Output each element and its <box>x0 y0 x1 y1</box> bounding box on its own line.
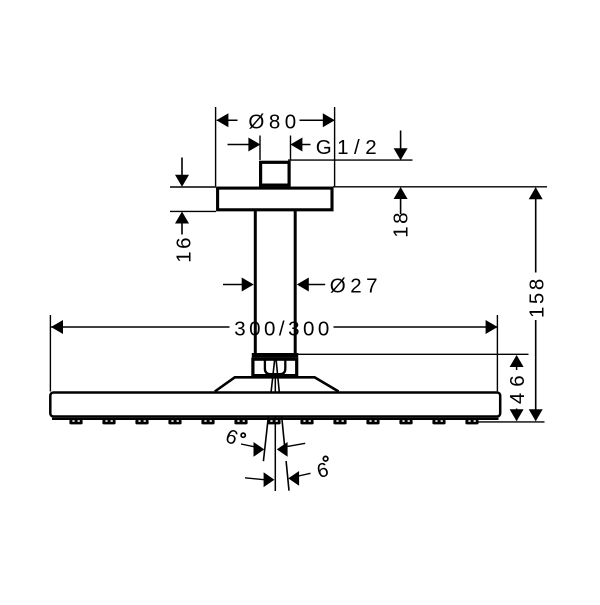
extension line G1/2 right <box>290 136 292 161</box>
dim 18 upper arrow (down) <box>394 148 408 160</box>
svg-text:G1/2: G1/2 <box>316 136 382 159</box>
extension line right of O80 <box>334 107 336 186</box>
dim 16 lower arrow shaft <box>181 223 183 235</box>
dim 18 upper arrow shaft <box>400 131 402 150</box>
dim 158 bottom arrow (down) <box>529 409 543 421</box>
label 6 deg upper: degree ring <box>241 433 245 437</box>
spray right line lower segment <box>286 461 289 491</box>
angle dim upper leader right <box>288 443 306 446</box>
label 46 background <box>507 370 528 409</box>
spray plate band <box>52 418 499 420</box>
svg-text:Ø80: Ø80 <box>248 111 300 134</box>
dim 46 line <box>516 356 518 421</box>
pipe bottom cap <box>252 353 298 358</box>
angle dim upper arrow pointing left <box>277 442 288 457</box>
pipe right wall <box>294 211 297 354</box>
dimension line O80 right segment <box>300 119 335 121</box>
svg-text:300/300: 300/300 <box>234 317 333 340</box>
dimension tail G1/2 right <box>302 144 311 146</box>
lower nut inner cup <box>265 359 285 374</box>
angle dim lower arrow pointing left <box>288 471 299 486</box>
arrow G1/2 pointing right <box>248 138 260 152</box>
svg-text:46: 46 <box>506 369 529 404</box>
extension line 46 top <box>297 353 529 355</box>
shower head body <box>50 393 500 417</box>
ceiling line right <box>333 186 547 188</box>
extension line 300 left <box>49 315 51 392</box>
angle dim upper leader left <box>241 444 255 447</box>
dim 18 lower arrow (up) <box>394 187 408 199</box>
spray right line upper segment <box>276 359 285 447</box>
dimension tail G1/2 left <box>228 144 250 146</box>
dim 158 top arrow (up) <box>529 187 543 199</box>
angle dim lower arrow pointing right <box>264 472 275 487</box>
arrow O80 right <box>323 113 335 127</box>
dim 18 lower arrow shaft <box>400 199 402 215</box>
dimension tail O27 left <box>223 284 243 286</box>
svg-text:16: 16 <box>173 235 196 263</box>
svg-text:18: 18 <box>389 210 412 238</box>
svg-text:158: 158 <box>526 276 549 318</box>
extension line left of O80 <box>215 107 217 186</box>
label 158 background <box>526 273 547 321</box>
head bottom extension right <box>477 421 545 423</box>
extension line 300 right <box>496 315 498 391</box>
extension line at nut top going right <box>288 159 413 161</box>
arrow O27 pointing left <box>297 278 309 292</box>
ceiling line left <box>170 186 216 188</box>
svg-text:Ø27: Ø27 <box>330 274 382 297</box>
spray left line <box>263 359 274 462</box>
angle dim upper arrow pointing right <box>254 442 265 457</box>
label 6 deg lower: degree ring <box>323 456 328 461</box>
cone trapezoid <box>215 377 339 391</box>
spray center line <box>274 376 276 491</box>
arrow G1/2 pointing left <box>290 138 302 152</box>
plate bottom extension left <box>170 210 216 212</box>
angle dim lower tail left <box>245 478 264 480</box>
nozzle row <box>69 420 478 425</box>
dim 158 line <box>535 188 537 421</box>
dimension line 300/300 right segment <box>334 326 498 328</box>
angle dim lower leader right <box>299 473 311 476</box>
arrow O80 left <box>216 113 228 127</box>
dim 46 bottom arrow (down) <box>510 409 524 421</box>
dimension tail O27 right <box>309 284 326 286</box>
dim 16 upper arrow (down) <box>175 175 189 187</box>
pipe left wall <box>254 211 257 354</box>
extension line G1/2 left <box>259 136 261 161</box>
ceiling plate <box>218 188 332 210</box>
top square nut <box>261 162 290 185</box>
dimension line O80 left segment <box>217 119 238 121</box>
dimension line 300/300 left segment <box>51 326 230 328</box>
arrow 300/300 right <box>486 320 498 334</box>
dim 16 lower arrow (up) <box>175 212 189 224</box>
dim 16 upper arrow shaft <box>181 158 183 177</box>
arrow O27 pointing right <box>242 278 254 292</box>
lower nut box <box>253 359 297 375</box>
arrow 300/300 left <box>51 320 63 334</box>
nozzle notches <box>72 420 475 422</box>
dim 46 top arrow (up) <box>510 355 524 367</box>
